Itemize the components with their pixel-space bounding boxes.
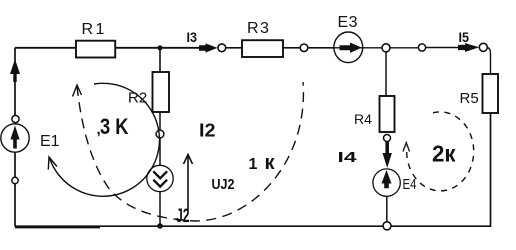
svg-text:1: 1 bbox=[249, 156, 258, 173]
svg-text:I3: I3 bbox=[187, 29, 198, 45]
wire R3 to circle bbox=[283, 47, 300, 49]
loop 2k arrowhead bbox=[403, 143, 410, 152]
junction dot bottom bbox=[157, 223, 163, 229]
svg-text:E1: E1 bbox=[40, 133, 60, 150]
svg-text:R2: R2 bbox=[128, 90, 147, 107]
svg-text:I5: I5 bbox=[459, 29, 470, 45]
svg-text:R3: R3 bbox=[247, 20, 270, 37]
wire through E3 bbox=[334, 47, 382, 49]
node circle bbox=[218, 44, 226, 52]
resistor R2 bbox=[153, 72, 170, 112]
wire R2 branch from node down bbox=[159, 48, 161, 72]
current source J2 bbox=[147, 165, 173, 191]
svg-text:E3: E3 bbox=[338, 14, 359, 31]
wire to circle bbox=[390, 47, 418, 49]
node circle bbox=[156, 130, 164, 138]
loop 1k arrowhead bbox=[73, 85, 82, 97]
source E3 bbox=[334, 32, 363, 63]
junction dot bbox=[157, 45, 162, 50]
wire top from left corner to R1 bbox=[15, 47, 76, 49]
node circle bbox=[300, 44, 308, 52]
E1 arrow bbox=[10, 126, 19, 149]
arrow I4 down on wire bbox=[383, 142, 392, 169]
resistor R5 bbox=[483, 74, 499, 113]
arrow up on left wire bbox=[10, 59, 20, 82]
wire J2 to bottom junction bbox=[159, 192, 161, 227]
wire E4 to bottom node bbox=[386, 196, 388, 222]
J2 chevron 2 bbox=[153, 180, 167, 187]
wire to E3 bbox=[308, 47, 334, 49]
wire bend to R5 bbox=[487, 47, 490, 74]
wire circle to J2 source bbox=[159, 138, 161, 171]
loop 2k dashed arc bbox=[407, 112, 474, 191]
svg-text:E4: E4 bbox=[403, 176, 417, 193]
svg-text:,: , bbox=[97, 121, 101, 138]
svg-text:3 K: 3 K bbox=[100, 114, 129, 139]
node circle above E1 bbox=[12, 115, 19, 122]
svg-text:R4: R4 bbox=[354, 111, 372, 127]
E4 arrow bbox=[381, 170, 391, 188]
svg-text:R5: R5 bbox=[460, 90, 479, 107]
svg-text:I4: I4 bbox=[338, 149, 358, 166]
wire to I5 arrow bbox=[426, 47, 459, 49]
resistor R3 bbox=[242, 40, 283, 57]
svg-text:I2: I2 bbox=[199, 121, 216, 141]
wire to R3 bbox=[226, 47, 242, 49]
wire R4 branch down bbox=[385, 52, 387, 96]
arrow I3 bbox=[199, 43, 217, 52]
node circle below R4 bbox=[384, 135, 391, 142]
arrow I5 bbox=[458, 43, 479, 52]
node circle (top of R4 branch) bbox=[382, 44, 390, 52]
svg-text:2к: 2к bbox=[432, 141, 456, 167]
wire R1 to node bbox=[115, 47, 199, 49]
node circle bottom bbox=[383, 222, 391, 230]
source E1 bbox=[1, 124, 29, 152]
node circle below E1 bbox=[12, 177, 18, 183]
svg-text:UJ2: UJ2 bbox=[212, 176, 235, 193]
loop 1k dashed arc bbox=[77, 82, 303, 221]
bottom wire thick left part bbox=[15, 226, 100, 229]
resistor R4 bbox=[380, 96, 395, 132]
svg-text:к: к bbox=[265, 152, 276, 174]
arrow I2 up (next to J2 source) bbox=[187, 156, 189, 212]
J2 chevron 1 bbox=[153, 171, 167, 178]
E3 arrow bbox=[340, 43, 362, 53]
loop 3K arrowhead bbox=[48, 157, 57, 170]
svg-text:R1: R1 bbox=[82, 21, 107, 38]
wire R5 down to bottom-right corner bbox=[15, 113, 491, 226]
source E4 bbox=[373, 169, 400, 196]
node circle bbox=[418, 44, 425, 51]
resistor R1 bbox=[76, 41, 115, 58]
left wire bbox=[14, 48, 16, 227]
loop 3K solid arc bbox=[50, 83, 160, 196]
node circle top-right bbox=[479, 43, 487, 51]
wire R2 to circle bbox=[159, 112, 161, 130]
